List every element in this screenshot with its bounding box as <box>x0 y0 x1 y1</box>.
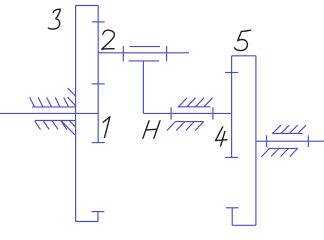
bearing H upper rail <box>178 106 211 108</box>
bearing out tick left <box>266 135 268 147</box>
carrier fork lower rail <box>129 60 160 62</box>
frame wall upper rail <box>32 106 76 108</box>
carrier fork tick left <box>122 46 124 61</box>
ring gear 3 bottom stub <box>97 212 99 222</box>
ring gear 5 bottom stub <box>231 208 233 226</box>
label 5 <box>235 30 251 50</box>
gears 1-2 vertical line <box>97 6 99 144</box>
ring gear 5 top lip <box>232 55 256 57</box>
tooth tick ring3 bottom <box>91 211 104 213</box>
carrier fork upper rail <box>130 46 161 48</box>
wire planet shaft 2 <box>98 52 189 54</box>
wire input shaft 1 <box>0 112 98 114</box>
bearing H lower rail <box>175 121 203 123</box>
ring gear 5 bottom lip <box>232 224 256 226</box>
ring gear 5 rim <box>255 56 257 226</box>
tooth tick ring3/gear2 <box>92 21 105 23</box>
label H <box>143 121 160 138</box>
label 4 <box>216 127 227 146</box>
label 3 <box>48 9 60 29</box>
label 2 <box>102 30 115 49</box>
bearing out tick right <box>307 135 309 147</box>
frame wall upper hatching <box>30 88 76 107</box>
wire output shaft <box>256 140 324 142</box>
bearing out lower hatching <box>262 148 298 156</box>
tooth tick gear2/gear1 <box>92 83 105 85</box>
carrier fork tick right <box>166 46 168 61</box>
bearing H tick right <box>212 107 214 119</box>
bearing out upper hatching <box>273 125 306 133</box>
tooth tick ring5 bottom <box>226 207 239 209</box>
frame wall lower rail <box>35 120 76 122</box>
ring gear 3 top lip <box>76 5 99 7</box>
bearing out upper rail <box>272 132 303 134</box>
tooth tick gear1 bottom <box>92 142 105 144</box>
bearing H tick left <box>170 107 172 119</box>
carrier H arm <box>142 61 144 114</box>
label 1 <box>103 117 110 138</box>
ring gear 3 rim <box>75 6 77 222</box>
bearing H lower hatching <box>167 122 204 131</box>
frame wall lower hatching <box>35 121 76 136</box>
ring gear 3 bottom lip <box>76 221 99 223</box>
tooth tick gear4 top <box>225 72 238 74</box>
bearing out lower rail <box>269 147 298 149</box>
tooth tick gear4 bottom <box>225 156 238 158</box>
bearing H upper hatching <box>179 98 213 107</box>
gear 4 line with ring5 stub <box>231 56 233 158</box>
wire carrier shaft H <box>143 112 231 114</box>
